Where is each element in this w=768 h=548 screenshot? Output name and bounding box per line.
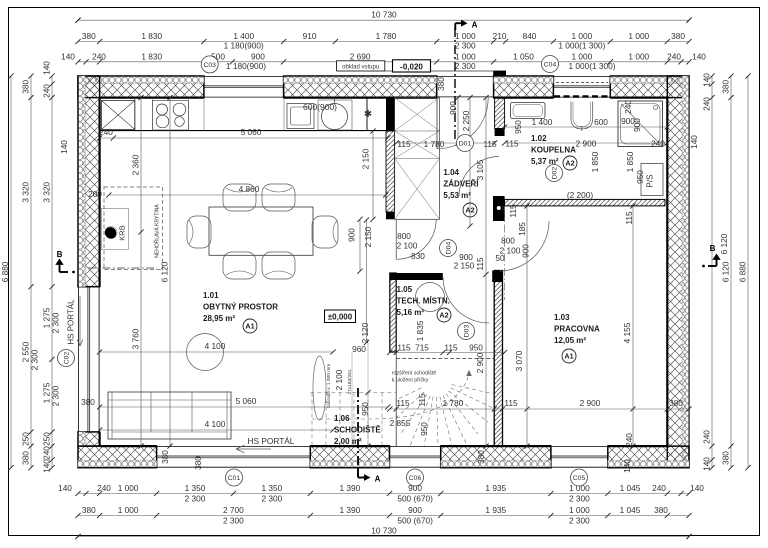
svg-text:840: 840: [523, 31, 537, 41]
svg-text:zábradlí v. 1 000 mm: zábradlí v. 1 000 mm: [326, 364, 332, 408]
svg-text:2 300: 2 300: [51, 312, 61, 333]
svg-text:6 120: 6 120: [719, 233, 729, 254]
svg-text:1 000: 1 000: [118, 505, 139, 515]
svg-text:2 300: 2 300: [455, 41, 476, 51]
svg-text:950: 950: [635, 170, 645, 184]
svg-text:10 730: 10 730: [371, 526, 397, 536]
svg-text:1 850: 1 850: [590, 151, 600, 172]
svg-text:A1: A1: [245, 322, 254, 331]
svg-text:C05: C05: [573, 475, 586, 482]
svg-text:240: 240: [623, 100, 633, 114]
svg-text:6 880: 6 880: [738, 261, 748, 282]
svg-text:1.05: 1.05: [397, 285, 413, 294]
svg-text:2 150: 2 150: [454, 261, 475, 271]
svg-text:✱: ✱: [364, 109, 372, 120]
svg-text:830: 830: [411, 251, 425, 261]
svg-text:1 835: 1 835: [415, 320, 425, 341]
svg-text:960: 960: [352, 344, 366, 354]
svg-text:2 690: 2 690: [350, 51, 371, 61]
svg-text:140: 140: [61, 51, 75, 61]
svg-text:-0,020: -0,020: [400, 62, 423, 71]
svg-text:2 150: 2 150: [363, 226, 373, 247]
svg-text:1 350: 1 350: [262, 483, 283, 493]
svg-text:2 360: 2 360: [131, 154, 141, 175]
svg-text:k uložení příčky: k uložení příčky: [392, 378, 429, 384]
svg-text:115: 115: [624, 211, 634, 225]
svg-text:2 300: 2 300: [223, 516, 244, 526]
svg-text:115: 115: [417, 393, 427, 407]
svg-text:900: 900: [632, 118, 642, 132]
svg-text:1 350: 1 350: [185, 483, 206, 493]
svg-text:3 320: 3 320: [21, 181, 31, 202]
svg-text:1 390: 1 390: [340, 505, 361, 515]
svg-text:C02: C02: [63, 352, 70, 365]
svg-text:D01: D01: [459, 140, 472, 147]
svg-text:115: 115: [508, 204, 518, 218]
svg-text:2 300: 2 300: [262, 494, 283, 504]
svg-text:HS PORTÁL: HS PORTÁL: [248, 436, 295, 446]
svg-text:1.01: 1.01: [203, 291, 219, 300]
svg-text:140: 140: [622, 459, 632, 473]
svg-text:OBYTNÝ PROSTOR: OBYTNÝ PROSTOR: [203, 303, 278, 312]
svg-text:5 060: 5 060: [241, 127, 262, 137]
svg-text:5,16 m²: 5,16 m²: [397, 308, 425, 317]
svg-text:2 300: 2 300: [51, 385, 61, 406]
svg-text:240: 240: [667, 51, 681, 61]
svg-text:2 120: 2 120: [360, 322, 370, 343]
svg-text:2,00 m²: 2,00 m²: [334, 437, 362, 446]
svg-text:1 000: 1 000: [455, 31, 476, 41]
svg-text:1 000: 1 000: [118, 483, 139, 493]
svg-text:600: 600: [594, 117, 608, 127]
svg-text:KOUPELNA: KOUPELNA: [531, 146, 576, 155]
svg-text:A2: A2: [465, 206, 474, 215]
svg-text:140: 140: [692, 51, 706, 61]
svg-text:115: 115: [397, 343, 411, 353]
svg-text:240: 240: [99, 127, 113, 137]
svg-text:2 900: 2 900: [475, 352, 485, 373]
svg-text:900: 900: [521, 244, 531, 258]
svg-text:115: 115: [504, 398, 518, 408]
svg-text:1 000(1 300): 1 000(1 300): [568, 61, 615, 71]
svg-text:2 100: 2 100: [334, 369, 344, 390]
svg-text:C01: C01: [228, 475, 241, 482]
svg-text:A2: A2: [439, 311, 448, 320]
svg-text:950: 950: [419, 422, 429, 436]
svg-text:900: 900: [347, 228, 357, 242]
svg-text:185: 185: [517, 222, 527, 236]
svg-text:800: 800: [397, 231, 411, 241]
svg-text:715: 715: [415, 343, 429, 353]
svg-text:900: 900: [408, 505, 422, 515]
svg-text:115: 115: [444, 343, 458, 353]
svg-text:P/S: P/S: [646, 175, 655, 188]
svg-text:5,53 m²: 5,53 m²: [443, 191, 471, 200]
svg-text:4 155: 4 155: [622, 322, 632, 343]
svg-text:380: 380: [160, 450, 170, 464]
svg-text:1.06: 1.06: [334, 414, 350, 423]
svg-text:115: 115: [505, 139, 519, 149]
svg-text:1 780: 1 780: [424, 139, 445, 149]
svg-text:3 070: 3 070: [514, 350, 524, 371]
svg-text:2 300: 2 300: [30, 349, 40, 370]
svg-text:2 300: 2 300: [569, 494, 590, 504]
svg-text:240: 240: [624, 433, 634, 447]
svg-text:800: 800: [501, 236, 515, 246]
svg-text:50: 50: [495, 253, 505, 263]
svg-text:140: 140: [58, 483, 72, 493]
svg-text:1 830: 1 830: [141, 51, 162, 61]
svg-text:2 300: 2 300: [455, 61, 476, 71]
svg-text:D03: D03: [463, 325, 470, 338]
svg-text:380: 380: [654, 505, 668, 515]
svg-text:2 100: 2 100: [397, 241, 418, 251]
svg-text:380: 380: [21, 79, 31, 93]
svg-text:1 935: 1 935: [485, 505, 506, 515]
svg-text:B: B: [710, 244, 716, 253]
svg-text:17x183/261: 17x183/261: [347, 369, 353, 394]
svg-text:240: 240: [652, 483, 666, 493]
svg-text:C06: C06: [409, 475, 422, 482]
svg-text:1 780: 1 780: [443, 398, 464, 408]
svg-text:5 060: 5 060: [236, 396, 257, 406]
svg-text:28,95 m²: 28,95 m²: [203, 314, 235, 323]
svg-text:6 120: 6 120: [721, 261, 731, 282]
svg-text:2 300: 2 300: [185, 494, 206, 504]
svg-text:3 320: 3 320: [42, 181, 52, 202]
svg-text:1 050: 1 050: [513, 51, 534, 61]
svg-text:1 180(900): 1 180(900): [226, 61, 266, 71]
svg-text:240: 240: [42, 446, 52, 460]
svg-text:2 900: 2 900: [576, 139, 597, 149]
svg-text:910: 910: [303, 31, 317, 41]
svg-text:380: 380: [436, 77, 446, 91]
svg-text:1 780: 1 780: [376, 31, 397, 41]
svg-text:SCHODIŠTĚ: SCHODIŠTĚ: [334, 426, 381, 435]
svg-text:115: 115: [396, 398, 410, 408]
svg-text:500 (670): 500 (670): [397, 516, 433, 526]
svg-text:1 000: 1 000: [572, 51, 593, 61]
svg-text:380: 380: [81, 397, 95, 407]
svg-text:4 100: 4 100: [205, 419, 226, 429]
svg-text:B: B: [57, 250, 63, 259]
svg-text:2 900: 2 900: [580, 398, 601, 408]
svg-text:2 855: 2 855: [390, 418, 411, 428]
svg-text:1 000: 1 000: [572, 31, 593, 41]
svg-text:4 860: 4 860: [239, 184, 260, 194]
svg-text:NEHOŘLAVÁ KRYTINA: NEHOŘLAVÁ KRYTINA: [153, 204, 161, 258]
svg-text:1 830: 1 830: [141, 31, 162, 41]
svg-text:140: 140: [702, 457, 712, 471]
svg-text:240: 240: [702, 430, 712, 444]
svg-text:1 045: 1 045: [620, 505, 641, 515]
svg-text:380: 380: [82, 31, 96, 41]
svg-text:4 100: 4 100: [205, 341, 226, 351]
svg-text:D02: D02: [551, 167, 558, 180]
svg-text:KRB: KRB: [118, 225, 127, 240]
svg-text:1 000: 1 000: [628, 31, 649, 41]
svg-text:600(900): 600(900): [303, 102, 337, 112]
svg-text:140: 140: [42, 61, 52, 75]
svg-text:210: 210: [493, 31, 507, 41]
svg-text:6 120: 6 120: [160, 261, 170, 282]
svg-text:240: 240: [92, 51, 106, 61]
svg-text:140: 140: [689, 135, 699, 149]
svg-text:1 000: 1 000: [569, 505, 590, 515]
svg-text:140: 140: [690, 483, 704, 493]
svg-text:(2 200): (2 200): [567, 190, 594, 200]
svg-text:3 760: 3 760: [131, 328, 141, 349]
svg-text:900: 900: [251, 51, 265, 61]
svg-text:A1: A1: [564, 352, 573, 361]
svg-text:380: 380: [721, 79, 731, 93]
svg-text:2 150: 2 150: [361, 148, 371, 169]
svg-text:500 (670): 500 (670): [397, 494, 433, 504]
svg-text:380: 380: [671, 31, 685, 41]
svg-text:D04: D04: [445, 242, 452, 255]
svg-text:1.03: 1.03: [554, 313, 570, 322]
svg-text:240: 240: [651, 139, 665, 149]
svg-text:1 000(1 300): 1 000(1 300): [558, 41, 605, 51]
svg-text:380: 380: [721, 451, 731, 465]
svg-text:380: 380: [476, 450, 486, 464]
svg-text:A: A: [375, 475, 381, 484]
svg-text:380: 380: [669, 398, 683, 408]
svg-text:TECH. MÍSTN.: TECH. MÍSTN.: [397, 297, 450, 306]
svg-text:115: 115: [483, 139, 497, 149]
svg-text:140: 140: [42, 459, 52, 473]
svg-text:900: 900: [448, 101, 458, 115]
svg-text:950: 950: [360, 402, 370, 416]
svg-text:PRACOVNA: PRACOVNA: [554, 325, 600, 334]
svg-text:1 400: 1 400: [233, 31, 254, 41]
svg-text:A: A: [472, 21, 478, 30]
svg-text:250: 250: [21, 432, 31, 446]
svg-text:2 300: 2 300: [569, 516, 590, 526]
svg-text:200: 200: [88, 189, 102, 199]
svg-text:6 880: 6 880: [0, 261, 10, 282]
svg-text:1 935: 1 935: [485, 483, 506, 493]
svg-text:12,05 m²: 12,05 m²: [554, 336, 586, 345]
svg-text:±0,000: ±0,000: [328, 313, 353, 322]
svg-text:950: 950: [469, 343, 483, 353]
svg-text:1.02: 1.02: [531, 134, 547, 143]
svg-text:ZÁDVEŘÍ: ZÁDVEŘÍ: [443, 180, 479, 189]
svg-text:1.04: 1.04: [443, 168, 459, 177]
svg-text:1 390: 1 390: [340, 483, 361, 493]
svg-text:10 730: 10 730: [371, 10, 397, 20]
svg-text:1 850: 1 850: [625, 151, 635, 172]
svg-text:240: 240: [97, 483, 111, 493]
svg-text:140: 140: [702, 73, 712, 87]
svg-text:115: 115: [397, 139, 411, 149]
svg-text:115: 115: [475, 257, 485, 271]
svg-text:obklad vstupu: obklad vstupu: [342, 64, 379, 70]
svg-text:240: 240: [702, 97, 712, 111]
svg-text:1 000: 1 000: [628, 51, 649, 61]
svg-text:3 105: 3 105: [475, 159, 485, 180]
svg-text:C03: C03: [203, 62, 216, 69]
svg-text:140: 140: [59, 140, 69, 154]
svg-text:rozšíření schodiště: rozšíření schodiště: [392, 371, 437, 377]
svg-text:380: 380: [82, 505, 96, 515]
svg-text:250: 250: [42, 432, 52, 446]
svg-text:380: 380: [21, 451, 31, 465]
svg-text:C04: C04: [544, 61, 557, 68]
svg-text:HS PORTÁL: HS PORTÁL: [67, 299, 76, 345]
svg-text:950: 950: [513, 120, 523, 134]
svg-text:2 250: 2 250: [461, 110, 471, 131]
svg-text:240: 240: [42, 84, 52, 98]
svg-text:1 045: 1 045: [620, 483, 641, 493]
svg-text:1 400: 1 400: [532, 117, 553, 127]
svg-text:1 000: 1 000: [455, 51, 476, 61]
svg-text:2 700: 2 700: [223, 505, 244, 515]
svg-text:380: 380: [193, 456, 203, 470]
svg-text:1 180(900): 1 180(900): [224, 41, 264, 51]
svg-text:A2: A2: [565, 159, 574, 168]
